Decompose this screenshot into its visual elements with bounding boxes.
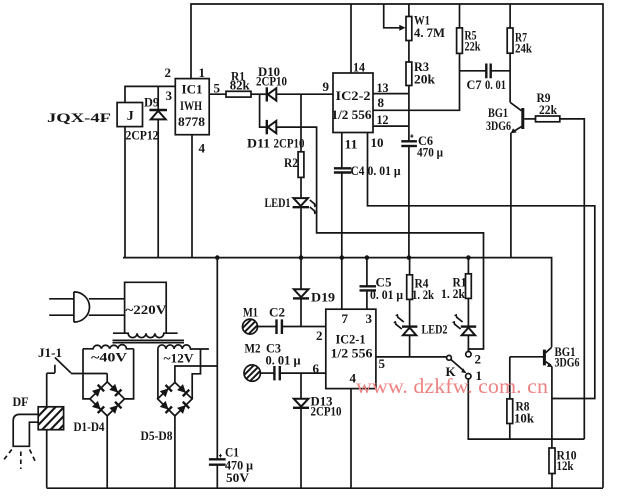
wire: R8 column (509, 357, 511, 439)
capacitor C7 0.01 (460, 64, 511, 93)
svg-text:D1-D4: D1-D4 (74, 419, 105, 434)
svg-text:0. 01 μ: 0. 01 μ (368, 163, 402, 178)
svg-text:LED2: LED2 (422, 322, 448, 337)
svg-text:0. 01: 0. 01 (485, 77, 506, 92)
svg-text:R2: R2 (284, 155, 298, 170)
transformer secondary winding ~40V (83, 345, 134, 365)
wire: M1 to C2 (258, 326, 277, 328)
wire: pin8 to R5/C7 node (373, 53, 460, 110)
resistor R3 20k (406, 62, 412, 86)
wire: LED1 to bus (300, 208, 302, 257)
svg-text:14: 14 (353, 60, 365, 75)
wire: R2 to LED1 (300, 177, 302, 197)
svg-text:IC1: IC1 (182, 82, 203, 97)
rectifier bridge D5-D8 (141, 382, 193, 443)
op-amp U2a: timer IC2-2 1/2 556 (333, 73, 373, 133)
svg-text:3DG6: 3DG6 (486, 118, 511, 133)
svg-text:2: 2 (475, 352, 482, 367)
capacitor C2 (269, 305, 285, 335)
svg-text:1. 2k: 1. 2k (412, 287, 435, 302)
wire: R3 down through pin13/pin12 junctions to C6 (408, 86, 410, 142)
transistor Q1: BG1 3DG6 upper (486, 102, 536, 133)
svg-text:www. dzkfw. com. cn: www. dzkfw. com. cn (356, 374, 549, 398)
resistor R7 24k (507, 4, 532, 56)
wire: C6 to bus (408, 146, 410, 257)
junction dots on bus (215, 255, 220, 260)
op-amp U1: timer IC1 IWH8778 (175, 79, 209, 135)
wire: IC1 pin2 to relay J (125, 86, 175, 102)
capacitor C1 470u 50V electrolytic (209, 445, 254, 486)
wire: R11 to LED2 right (467, 298, 469, 326)
wire: C3 to IC2-1 pin6 (D13 junction) (280, 372, 326, 374)
wire: plug to 220V box (89, 299, 125, 315)
svg-text:1/2 556: 1/2 556 (331, 346, 374, 361)
wire: junction column to R2 (300, 94, 302, 152)
wire: pin10 long run to right then down to BG1b emitter node (368, 133, 595, 399)
svg-text:12: 12 (377, 112, 389, 127)
svg-text:1. 2k: 1. 2k (441, 286, 466, 301)
svg-text:LED1: LED1 (265, 195, 291, 210)
resistor R2 (298, 152, 304, 178)
svg-text:5: 5 (379, 356, 386, 371)
transformer primary box ~220V (125, 282, 168, 333)
resistor R9 22k (536, 90, 560, 122)
svg-text:24k: 24k (515, 41, 533, 56)
svg-text:IWH: IWH (180, 98, 202, 113)
transformer primary winding (113, 333, 178, 337)
wire: pin7 riser to bus (341, 258, 343, 310)
svg-text:DF: DF (13, 394, 29, 409)
wire: 12V winding right to bridge input (192, 349, 200, 399)
wire: pin5 to switch K pivot (376, 356, 447, 358)
transformer secondary winding ~12V (158, 345, 209, 366)
motor M2 (237, 341, 266, 389)
svg-text:1/2 556: 1/2 556 (332, 107, 372, 122)
transistor Q2: BG1 3DG6 lower (544, 344, 579, 370)
svg-text:3DG6: 3DG6 (555, 355, 580, 370)
svg-text:D19: D19 (311, 290, 336, 305)
transformer core (113, 340, 185, 342)
svg-text:C7: C7 (467, 77, 482, 92)
svg-text:J: J (127, 109, 134, 124)
wire: contact 1 down to R8 rail across to R9 drop (468, 379, 584, 439)
wire: C1 to ground rail (216, 465, 218, 488)
wire: pin14 riser to top rail (350, 4, 352, 73)
wire: 12V winding left to bridge input (157, 349, 159, 399)
svg-text:2CP10: 2CP10 (311, 404, 342, 419)
svg-text:~40V: ~40V (91, 350, 128, 365)
wire: top supply rail frame (pin1 riser, top, right side) (191, 4, 603, 488)
wire: BG1b base rail from R8 top (510, 356, 543, 358)
resistor R10 12k (549, 448, 577, 474)
diode D9 (144, 86, 167, 257)
svg-text:M2: M2 (245, 341, 261, 356)
svg-text:JQX-4F: JQX-4F (47, 110, 111, 125)
wire: pin4 down to bottom rail (350, 389, 352, 488)
svg-text:1: 1 (199, 65, 206, 80)
svg-text:2: 2 (165, 65, 172, 80)
wire: C4 to bus (341, 173, 343, 258)
svg-text:82k: 82k (230, 78, 251, 93)
svg-text:~220V: ~220V (126, 302, 168, 317)
wire: pin12 to C6 column (373, 125, 409, 127)
wire: D5-D8 output to C1 column (175, 366, 217, 382)
svg-text:D9: D9 (144, 95, 159, 110)
resistor R11 1.2k (441, 258, 471, 301)
wire: W1 to R3 (408, 41, 410, 63)
svg-text:IC2-1: IC2-1 (336, 332, 366, 347)
svg-text:10: 10 (371, 135, 384, 150)
capacitor C5 0.01u (360, 258, 404, 310)
wire: R10 to bottom rail (551, 474, 553, 488)
svg-text:20k: 20k (414, 72, 436, 87)
wire: bottom ground rail (47, 487, 603, 489)
rectifier bridge D1-D4 (74, 382, 125, 434)
wire: 40V winding right to bridge input (125, 349, 134, 399)
capacitor C6 470u electrolytic (401, 133, 443, 160)
potentiometer W1 4.7M (384, 4, 445, 41)
wire: R1 to D10 (251, 93, 266, 95)
wire: R9 to right then long drop to R8 rail (560, 119, 585, 439)
svg-text:2CP10: 2CP10 (274, 136, 305, 151)
svg-text:8: 8 (378, 95, 385, 110)
svg-text:~12V: ~12V (164, 351, 195, 366)
svg-text:J1-1: J1-1 (38, 345, 62, 360)
LED LED2 left (393, 314, 447, 337)
mains plug body (74, 292, 90, 322)
wire: LED2 left to pin5 rail (409, 336, 411, 357)
LED LED1 (265, 195, 317, 214)
wire: R4 to LED2 left (409, 299, 411, 326)
wire: IC1 pin5 to R1 (209, 93, 226, 95)
svg-text:6: 6 (313, 361, 320, 376)
svg-text:9: 9 (323, 79, 330, 94)
capacitor C3 0.01u (266, 341, 302, 381)
wire: R7 down to BG1a collector (509, 53, 511, 102)
wire: D1-D4 bottom to ground rail (106, 416, 108, 488)
wire: M2 to C3 (260, 372, 274, 374)
capacitor C4 0.01u (334, 163, 401, 178)
svg-text:12k: 12k (557, 458, 575, 473)
wire: BG1a emitter down to bus (510, 133, 512, 258)
wire: IC1 pin4 down to bus (191, 135, 193, 258)
wire: pin13 to R3 column (373, 93, 409, 95)
svg-text:D11: D11 (247, 136, 270, 151)
svg-text:2CP10: 2CP10 (256, 74, 287, 89)
svg-text:D5-D8: D5-D8 (141, 428, 173, 443)
diode D19 (293, 258, 336, 327)
svg-text:22k: 22k (539, 102, 558, 117)
svg-text:C4: C4 (351, 163, 365, 178)
svg-text:2: 2 (316, 328, 323, 343)
op-amp U2b: timer IC2-1 1/2 556 (326, 309, 376, 388)
wire: 40V winding left to bridge input (83, 349, 90, 399)
svg-text:22k: 22k (465, 39, 482, 54)
wire: D10 to IC2-2 pin9 (276, 93, 333, 95)
wire: D5-D8 bottom to ground rail (174, 416, 176, 488)
wire: pin11 down to C4 (341, 133, 343, 169)
svg-text:10k: 10k (514, 411, 535, 426)
wire: J1-1 arm rail to bridge output riser (71, 374, 107, 382)
switch K (446, 352, 483, 384)
svg-text:4. 7M: 4. 7M (414, 25, 445, 40)
svg-text:0. 01 μ: 0. 01 μ (370, 287, 404, 302)
relay coil J (JQX-4F 2CP12) (117, 103, 142, 127)
resistor R1 82k (226, 91, 251, 97)
svg-text:7: 7 (342, 311, 349, 326)
svg-text:C2: C2 (269, 305, 285, 320)
wire: main horizontal bus and drop to BG1b collector (123, 258, 552, 347)
resistor R5 22k (457, 4, 482, 54)
svg-text:5: 5 (214, 81, 221, 96)
motor M1 (235, 305, 263, 342)
svg-text:2CP12: 2CP12 (126, 128, 159, 143)
svg-text:8778: 8778 (178, 114, 206, 129)
svg-text:3: 3 (366, 311, 373, 326)
svg-text:M1: M1 (243, 305, 258, 320)
diode D11 2CP10 (247, 120, 305, 151)
svg-text:IC2-2: IC2-2 (336, 88, 371, 103)
resistor R8 10k (507, 399, 535, 426)
wire: J bottom to bus (124, 127, 126, 258)
wire: LED2 right down to contact 2 (467, 336, 469, 352)
svg-text:4: 4 (199, 141, 206, 156)
resistor R4 1.2k (407, 258, 435, 302)
diode D10 2CP10 (256, 64, 287, 102)
wire: mains plug prongs (49, 299, 74, 315)
wire: D11 parallel branch down to switch contact 2 (260, 94, 484, 351)
diode D13 2CP10 (293, 373, 342, 488)
svg-text:3: 3 (166, 88, 173, 103)
svg-text:470 μ: 470 μ (417, 145, 444, 160)
LED LED2 right (452, 314, 476, 336)
svg-text:11: 11 (345, 137, 358, 152)
heater DF (13, 373, 78, 488)
wire: BG1b emitter down to R10 (551, 367, 553, 448)
svg-text:0. 01 μ: 0. 01 μ (266, 353, 302, 368)
svg-text:50V: 50V (226, 470, 250, 485)
wire: C2 to IC2-1 pin2 (D19 junction) (282, 326, 326, 328)
wire: bus down to C1 (216, 258, 218, 459)
air nozzle of DF (3, 414, 39, 469)
switch J1-1 (38, 345, 71, 373)
